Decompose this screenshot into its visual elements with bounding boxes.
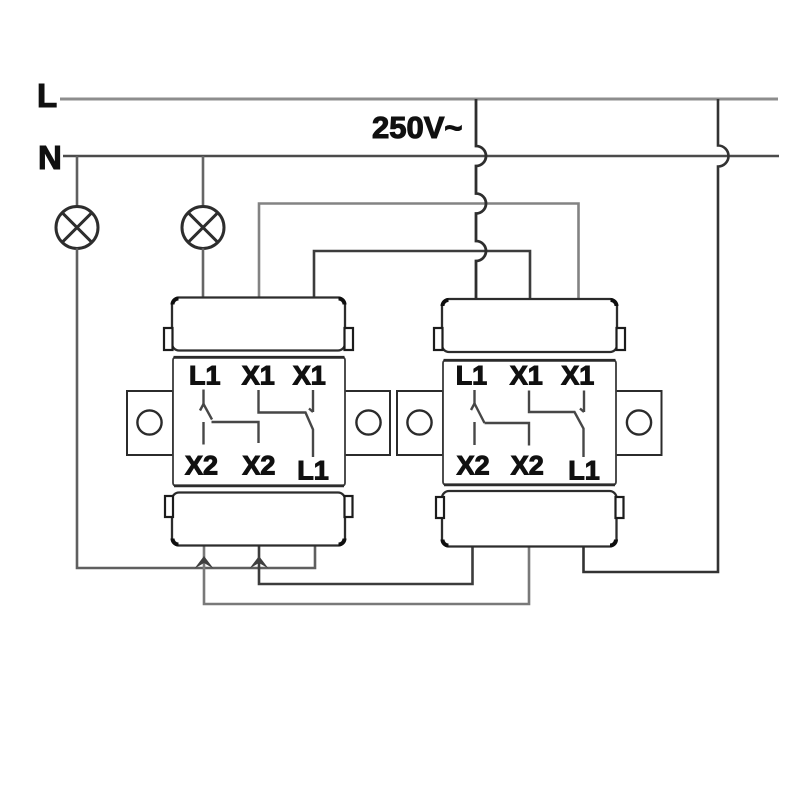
switch S2 contacts gang 1 xyxy=(471,390,529,446)
wire L to S2 top L1 with hops xyxy=(476,99,486,300)
switch S2 top cover xyxy=(434,299,625,352)
svg-text:X1: X1 xyxy=(510,361,543,391)
svg-text:L1: L1 xyxy=(568,456,600,486)
switch S1 contacts gang 1 xyxy=(200,390,259,445)
svg-text:X1: X1 xyxy=(561,361,594,391)
svg-text:X2: X2 xyxy=(185,451,218,481)
wire L line xyxy=(60,98,778,101)
svg-text:N: N xyxy=(38,139,62,176)
svg-text:250V~: 250V~ xyxy=(372,110,463,145)
svg-text:X2: X2 xyxy=(511,451,544,481)
svg-text:L1: L1 xyxy=(297,456,329,486)
wire lamp E1 to S1 bottom L1 xyxy=(77,248,315,568)
switch S2 left mounting ear xyxy=(397,391,443,455)
svg-text:X2: X2 xyxy=(457,451,490,481)
junction arrow at S1 X2a xyxy=(195,556,214,569)
switch S1 body xyxy=(173,357,345,486)
wire L to S2 bottom L1 with hop xyxy=(584,99,729,572)
svg-text:L: L xyxy=(37,77,57,114)
switch S1 contacts gang 2 xyxy=(259,390,314,457)
switch S2 bottom cover xyxy=(436,491,624,547)
switch S2 contacts gang 2 xyxy=(529,391,584,458)
wire S1 X2b to S2 X2a bottom link xyxy=(259,545,473,584)
switch S2 right mounting ear xyxy=(616,391,662,455)
svg-text:X1: X1 xyxy=(242,361,275,391)
lamp E1 xyxy=(56,207,98,249)
switch S1 top cover xyxy=(164,298,353,351)
wire N line xyxy=(63,155,779,158)
wire lamp E2 to S1 top L1 xyxy=(202,248,205,298)
svg-text:X2: X2 xyxy=(242,451,275,481)
wire N to lamp E1 xyxy=(76,156,79,207)
junction arrow at S1 X2b xyxy=(250,556,269,569)
wire S1 X1 to S2 X1 upper link xyxy=(259,204,579,301)
wire N to lamp E2 xyxy=(202,156,205,207)
switch S1 left mounting ear xyxy=(127,391,173,455)
svg-text:L1: L1 xyxy=(456,361,488,391)
wire S1 X2a to S2 X2b bottom link xyxy=(204,545,529,604)
switch S1 right mounting ear xyxy=(344,391,390,455)
switch S1 bottom cover xyxy=(165,493,353,546)
svg-text:L1: L1 xyxy=(189,361,221,391)
wire S1 X1 to S2 X1 lower link xyxy=(314,251,530,300)
svg-text:X1: X1 xyxy=(293,361,326,391)
lamp E2 xyxy=(182,207,224,249)
switch S2 body xyxy=(443,360,616,485)
